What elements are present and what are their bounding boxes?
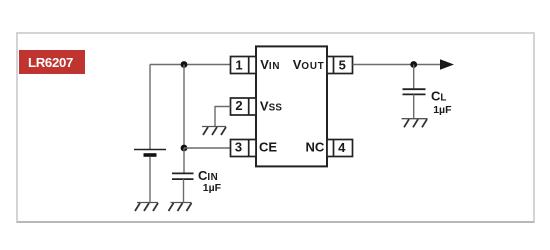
wire VOUT: pin 5 to arrow	[353, 64, 441, 66]
value label CL 1uF	[431, 88, 452, 116]
ground (VSS)	[202, 127, 226, 136]
svg-text:1: 1	[235, 58, 242, 73]
outer frame	[16, 32, 534, 223]
pin 1 box	[231, 57, 257, 74]
capacitor CL	[403, 89, 426, 94]
wire CL to ground	[413, 94, 415, 118]
battery BT1	[134, 150, 166, 156]
pin 3 box	[231, 140, 257, 157]
pin 4 box	[327, 140, 353, 157]
svg-text:CL: CL	[431, 88, 447, 103]
svg-text:NC: NC	[306, 140, 325, 155]
wire battery bottom vertical	[149, 157, 151, 203]
svg-text:3: 3	[235, 140, 242, 155]
ground (battery)	[135, 203, 158, 212]
node C (junction at CL branch)	[410, 61, 417, 68]
pin 5 box	[327, 57, 353, 74]
svg-text:CIN: CIN	[198, 168, 218, 183]
capacitor CIN	[172, 173, 194, 179]
part-number label LR6207	[19, 50, 85, 74]
wire node B to CIN	[183, 148, 185, 173]
op IC U1 body	[256, 46, 327, 166]
wire VIN top: battery+ to pin 1	[150, 64, 231, 66]
svg-text:1µF: 1µF	[203, 182, 222, 194]
wire VSS to ground	[215, 107, 231, 127]
svg-text:2: 2	[235, 98, 242, 113]
svg-text:4: 4	[338, 140, 346, 155]
wire CE: node B to pin 3	[184, 147, 231, 149]
wire CIN branch upper	[183, 65, 185, 149]
value label CIN 1uF	[198, 168, 222, 194]
svg-text:1µF: 1µF	[433, 104, 452, 116]
wire battery top vertical	[149, 65, 151, 150]
pin 2 box	[231, 98, 257, 115]
ground (CL)	[402, 119, 428, 128]
wire CL branch	[413, 65, 415, 90]
node B (junction at CE wire)	[181, 145, 188, 152]
output arrow	[440, 59, 454, 69]
node A (junction on VIN wire)	[181, 61, 188, 68]
ground (CIN)	[169, 203, 192, 212]
wire CIN to ground	[183, 179, 185, 202]
svg-text:CE: CE	[259, 140, 277, 155]
svg-text:5: 5	[339, 57, 346, 72]
